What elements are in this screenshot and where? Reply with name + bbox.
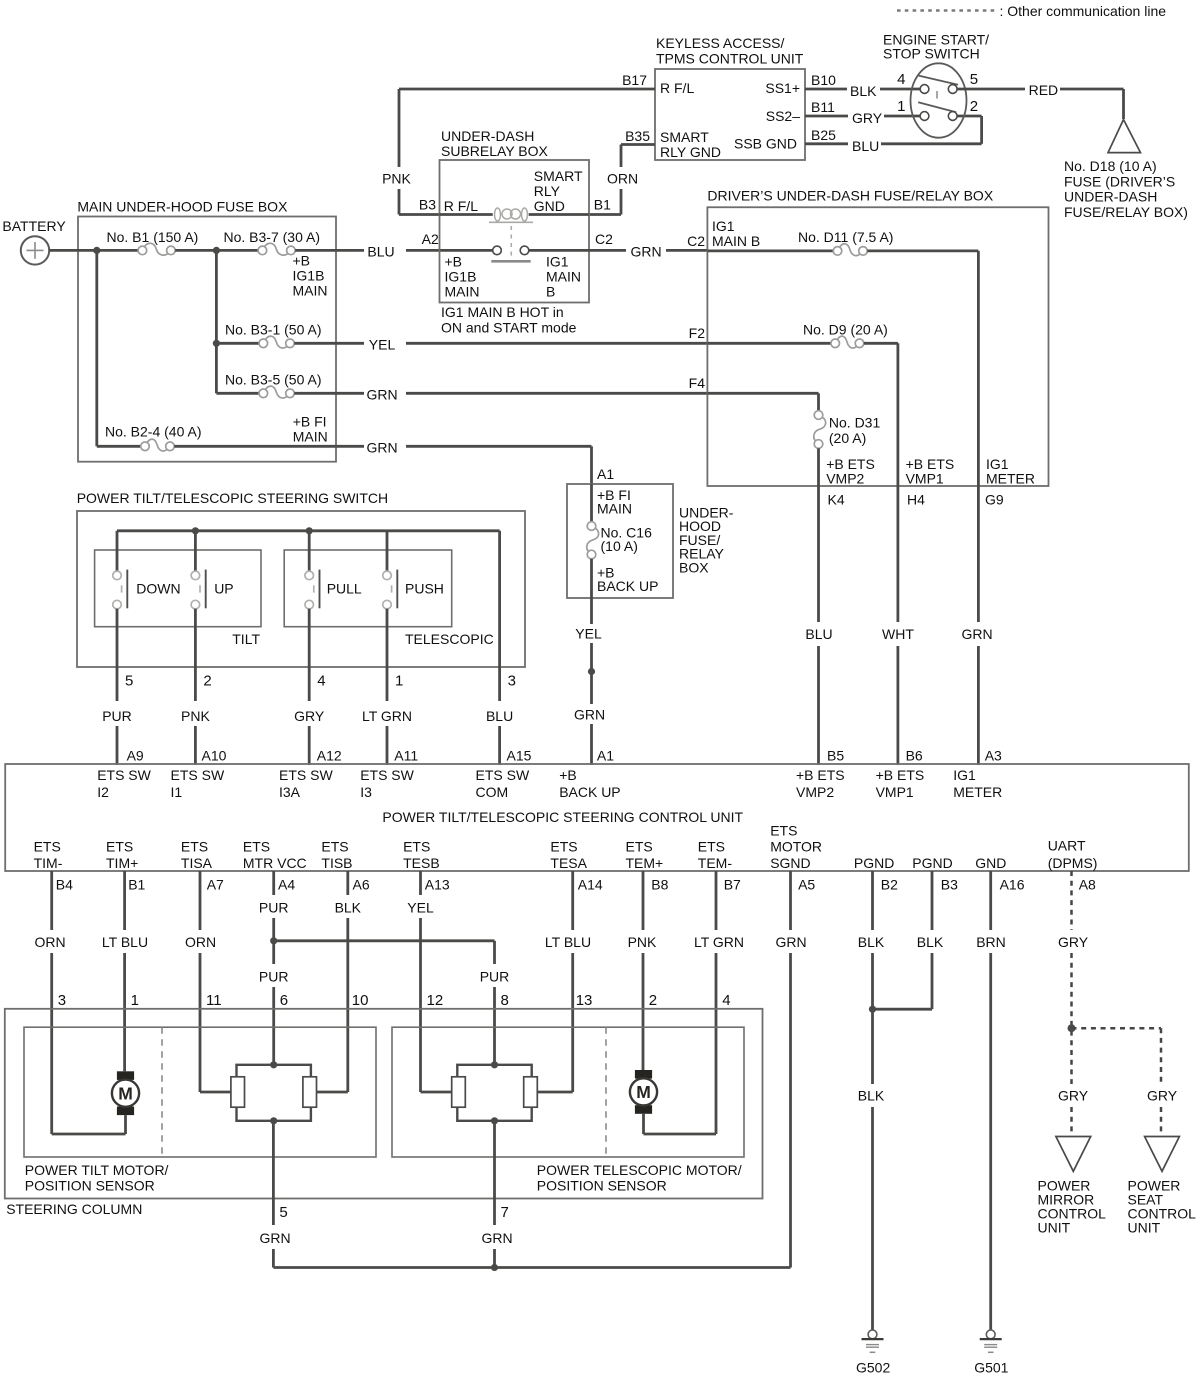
pin B6 xyxy=(906,748,923,764)
wire GRN B3-5 to driver box F4 xyxy=(294,387,707,403)
svg-text:B11: B11 xyxy=(811,99,835,115)
svg-text:GRN: GRN xyxy=(366,387,397,403)
pin B11 xyxy=(811,99,835,115)
svg-text:FUSE/RELAY BOX): FUSE/RELAY BOX) xyxy=(1064,204,1188,220)
svg-text:UNDER-DASH: UNDER-DASH xyxy=(1064,189,1157,205)
switch PULL xyxy=(305,531,362,609)
keyless access/TPMS control unit xyxy=(655,35,805,160)
svg-text:GRY: GRY xyxy=(294,708,325,724)
wire battery branch down to B2-4 xyxy=(97,250,141,446)
svg-text:ETS: ETS xyxy=(181,839,208,855)
svg-text:No. D31: No. D31 xyxy=(829,415,881,431)
svg-text:A14: A14 xyxy=(578,877,603,893)
svg-text:LT BLU: LT BLU xyxy=(545,934,591,950)
svg-text:IG1 MAIN B HOT in: IG1 MAIN B HOT in xyxy=(441,304,564,320)
svg-text:B7: B7 xyxy=(724,877,741,893)
svg-text:GRY: GRY xyxy=(1058,934,1089,950)
svg-text:TELESCOPIC: TELESCOPIC xyxy=(405,631,494,647)
svg-text:(20 A): (20 A) xyxy=(829,430,866,446)
svg-text:GRY: GRY xyxy=(1147,1088,1178,1104)
wire B3 branch down xyxy=(215,250,218,343)
svg-text:YEL: YEL xyxy=(369,337,396,353)
svg-text:1: 1 xyxy=(897,98,905,115)
pin A1 under-hood box xyxy=(597,466,614,482)
pin A2 xyxy=(422,231,439,247)
svg-text:I3A: I3A xyxy=(279,784,301,800)
legend: other communication line xyxy=(897,3,1166,19)
svg-text:MAIN: MAIN xyxy=(445,284,480,300)
svg-text:ETS: ETS xyxy=(321,839,348,855)
pin B1 xyxy=(594,197,611,213)
svg-text:No. B2-4 (40 A): No. B2-4 (40 A) xyxy=(105,424,202,440)
wire GRY dashed branch to power seat control unit xyxy=(1072,1028,1178,1136)
svg-text:GRY: GRY xyxy=(852,110,883,126)
svg-text:POWER TILT/TELESCOPIC STEERING: POWER TILT/TELESCOPIC STEERING SWITCH xyxy=(77,490,388,506)
svg-text:BLK: BLK xyxy=(917,934,944,950)
svg-text:IG1: IG1 xyxy=(546,254,569,270)
svg-text:A15: A15 xyxy=(507,748,532,764)
svg-text:ETS SW: ETS SW xyxy=(279,767,333,783)
wire LT BLU A14 to telescopic sensor pin13 xyxy=(537,871,593,1092)
position sensor telescopic xyxy=(452,1061,538,1124)
svg-text:GRN: GRN xyxy=(481,1230,512,1246)
fuse No. B1 (150 A) xyxy=(107,229,199,255)
svg-text:G9: G9 xyxy=(985,492,1004,508)
svg-text:MOTOR: MOTOR xyxy=(770,839,822,855)
svg-text:UART: UART xyxy=(1048,838,1086,854)
svg-text:C2: C2 xyxy=(687,233,705,249)
driver's under-dash fuse/relay box xyxy=(707,188,1048,486)
wire PNK B8 to telescopic motor pin2 xyxy=(628,871,658,1070)
svg-text:ETS: ETS xyxy=(34,839,61,855)
svg-text:ORN: ORN xyxy=(34,934,65,950)
pin A15 xyxy=(507,748,532,764)
svg-text:4: 4 xyxy=(897,71,905,88)
power tilt/telescopic steering control unit xyxy=(5,764,1189,871)
svg-text:BLK: BLK xyxy=(850,83,877,99)
wire PNK switch pin2 to A10 xyxy=(181,609,212,765)
svg-text:MTR VCC: MTR VCC xyxy=(243,855,307,871)
svg-text:A1: A1 xyxy=(597,748,614,764)
node GRN junction xyxy=(491,1264,498,1271)
pin A8 xyxy=(1079,877,1096,893)
pin C2 driver box xyxy=(687,233,705,249)
svg-text:A5: A5 xyxy=(798,877,815,893)
svg-text:A12: A12 xyxy=(317,748,342,764)
wire ORN B4 to steering column pin3 xyxy=(34,871,125,1134)
svg-text:2: 2 xyxy=(649,992,657,1009)
svg-text:TISB: TISB xyxy=(321,855,352,871)
svg-text:ETS SW: ETS SW xyxy=(171,767,225,783)
svg-text:BACK UP: BACK UP xyxy=(559,784,620,800)
svg-text:IG1: IG1 xyxy=(712,218,735,234)
pin B8 xyxy=(651,877,668,893)
svg-text:VMP1: VMP1 xyxy=(876,784,914,800)
main under-hood fuse box xyxy=(77,199,336,462)
svg-text:BLU: BLU xyxy=(486,708,513,724)
svg-text:M: M xyxy=(118,1083,133,1103)
pin A3 xyxy=(985,748,1002,764)
svg-text:GRN: GRN xyxy=(775,934,806,950)
svg-text:K4: K4 xyxy=(828,492,845,508)
svg-text:SGND: SGND xyxy=(770,855,810,871)
svg-text:A1: A1 xyxy=(597,466,614,482)
svg-text:MAIN: MAIN xyxy=(597,501,632,517)
svg-text:BRN: BRN xyxy=(976,934,1006,950)
svg-text:ETS: ETS xyxy=(626,839,653,855)
pin A10 xyxy=(202,748,227,764)
svg-text:POWER TILT MOTOR/: POWER TILT MOTOR/ xyxy=(25,1162,169,1178)
svg-text:13: 13 xyxy=(576,992,593,1009)
steering column box xyxy=(5,1009,763,1217)
wire GRY B11 to switch pin1 xyxy=(805,110,920,126)
svg-text:+B ETS: +B ETS xyxy=(906,456,955,472)
wire YEL/GRN under-hood box to A1 control unit xyxy=(574,598,605,765)
fuse No. B3-7 (30 A) xyxy=(224,229,328,299)
svg-text:LT GRN: LT GRN xyxy=(694,934,744,950)
svg-text:IG1B: IG1B xyxy=(445,269,477,285)
svg-text:PUR: PUR xyxy=(102,708,132,724)
relay contact xyxy=(491,246,530,261)
svg-text:MAIN UNDER-HOOD FUSE BOX: MAIN UNDER-HOOD FUSE BOX xyxy=(77,199,288,215)
svg-text:A11: A11 xyxy=(394,748,418,764)
pin B25 xyxy=(811,127,836,143)
svg-text:PNK: PNK xyxy=(382,171,411,187)
under-hood fuse/relay box xyxy=(567,484,734,598)
svg-text:+B ETS: +B ETS xyxy=(876,767,925,783)
wire relay to C2 GRN to driver box xyxy=(529,244,708,260)
wire LT GRN switch pin1 to A11 xyxy=(362,609,412,765)
svg-text:TILT: TILT xyxy=(232,631,260,647)
svg-text:ETS: ETS xyxy=(106,839,133,855)
svg-text:TEM-: TEM- xyxy=(698,855,733,871)
svg-text:VMP1: VMP1 xyxy=(906,471,944,487)
node YEL/GRN splice xyxy=(588,668,595,675)
svg-text:R F/L: R F/L xyxy=(444,198,478,214)
pin B1 xyxy=(128,877,145,893)
svg-text:FUSE (DRIVER’S: FUSE (DRIVER’S xyxy=(1064,173,1175,189)
svg-text:10: 10 xyxy=(352,992,369,1009)
pin B5 xyxy=(827,748,844,764)
svg-text:YEL: YEL xyxy=(407,900,434,916)
svg-text:UP: UP xyxy=(214,581,233,597)
svg-text:No. B1 (150 A): No. B1 (150 A) xyxy=(107,229,199,245)
wire GRY A8 dashed to power mirror control unit xyxy=(1058,871,1089,1137)
svg-text:TPMS CONTROL UNIT: TPMS CONTROL UNIT xyxy=(656,51,804,67)
wire GRN A5 to sensors ground xyxy=(273,871,806,1268)
node BLK junction xyxy=(869,1006,876,1013)
svg-text:RED: RED xyxy=(1029,82,1059,98)
power tilt/telescopic steering switch box xyxy=(77,490,525,667)
pin A11 xyxy=(394,748,418,764)
svg-text:A7: A7 xyxy=(207,877,224,893)
svg-text:8: 8 xyxy=(501,992,509,1009)
pin B35 xyxy=(625,128,650,144)
wire GRN sensor tilt pin5 xyxy=(259,1121,290,1268)
node battery junction xyxy=(93,247,100,254)
svg-text:BLU: BLU xyxy=(852,138,879,154)
wire BLK B10 to switch pin4 xyxy=(805,83,920,99)
svg-text:PULL: PULL xyxy=(327,581,362,597)
svg-text:A9: A9 xyxy=(127,748,144,764)
svg-text:MAIN B: MAIN B xyxy=(712,233,760,249)
svg-text:B4: B4 xyxy=(56,877,73,893)
connector to power mirror control unit xyxy=(1038,1137,1107,1236)
svg-text:H4: H4 xyxy=(907,492,925,508)
wire RED switch pin5 to fuse D18 xyxy=(957,82,1123,119)
svg-text:GRN: GRN xyxy=(259,1230,290,1246)
svg-text:No. B3-5 (50 A): No. B3-5 (50 A) xyxy=(225,372,322,388)
svg-text:PUR: PUR xyxy=(259,900,289,916)
fuse No. D11 (7.5 A) xyxy=(707,229,978,486)
svg-text:GRN: GRN xyxy=(961,626,992,642)
wire fuse B1 to fuse B3-7 xyxy=(175,249,258,252)
pin A16 xyxy=(1000,877,1025,893)
node PUR junction xyxy=(270,937,277,944)
wire LT BLU B1 to tilt motor pin1 xyxy=(102,871,148,1071)
svg-text:M: M xyxy=(636,1082,651,1102)
wire BRN A16 to G501 xyxy=(976,871,1006,1330)
svg-text:ETS SW: ETS SW xyxy=(360,767,414,783)
wire BLU switch pin3 to A15 xyxy=(486,531,516,765)
svg-text:B17: B17 xyxy=(622,72,647,88)
svg-text:B35: B35 xyxy=(625,128,650,144)
svg-text:METER: METER xyxy=(953,784,1002,800)
svg-text:4: 4 xyxy=(317,673,325,690)
wire BLU K4 to B5 xyxy=(805,486,832,765)
wire YEL B3-1 to driver box F2 xyxy=(294,337,707,353)
power telescopic motor/position sensor box xyxy=(392,1027,744,1193)
svg-text:B3: B3 xyxy=(419,197,436,213)
svg-text:B: B xyxy=(546,284,555,300)
svg-text:No. D11 (7.5 A): No. D11 (7.5 A) xyxy=(798,229,893,245)
wire GRY switch pin4 to A12 xyxy=(294,609,325,765)
svg-text:PNK: PNK xyxy=(628,934,657,950)
svg-text:G502: G502 xyxy=(856,1360,890,1376)
svg-text:A8: A8 xyxy=(1079,877,1096,893)
pin B3 xyxy=(419,197,436,213)
svg-text:MAIN: MAIN xyxy=(293,428,328,444)
svg-text:G501: G501 xyxy=(974,1360,1008,1376)
svg-text:POWER TILT/TELESCOPIC STEERING: POWER TILT/TELESCOPIC STEERING CONTROL U… xyxy=(382,809,743,825)
pin B3 xyxy=(941,877,958,893)
svg-text:(10 A): (10 A) xyxy=(601,538,638,554)
svg-text:STEERING COLUMN: STEERING COLUMN xyxy=(6,1201,142,1217)
pin A14 xyxy=(578,877,603,893)
svg-text:ORN: ORN xyxy=(607,171,638,187)
pin B17 xyxy=(622,72,647,88)
svg-text:TESA: TESA xyxy=(550,855,587,871)
svg-text:RLY GND: RLY GND xyxy=(660,144,721,160)
svg-text:BLU: BLU xyxy=(805,626,832,642)
fuse No. D31 (20 A) xyxy=(707,393,880,486)
svg-text:5: 5 xyxy=(125,673,133,690)
svg-text:TISA: TISA xyxy=(181,855,213,871)
wire PNK B17 to subrelay xyxy=(382,89,655,215)
wire YEL A13 to telescopic sensor pin12 xyxy=(407,871,451,1092)
svg-text:DOWN: DOWN xyxy=(136,581,180,597)
wire BLK B2 to G502 xyxy=(858,871,885,1330)
svg-text:ETS: ETS xyxy=(770,823,797,839)
svg-text:A2: A2 xyxy=(422,231,439,247)
svg-text:4: 4 xyxy=(722,992,730,1009)
svg-text:IG1: IG1 xyxy=(953,767,976,783)
svg-text:+B FI: +B FI xyxy=(293,414,327,430)
svg-text:SMART: SMART xyxy=(660,129,709,145)
motor M telescopic xyxy=(630,1070,657,1134)
pin A9 xyxy=(127,748,144,764)
pin B2 xyxy=(881,877,898,893)
svg-text:I2: I2 xyxy=(97,784,109,800)
inner box TILT xyxy=(95,550,261,647)
position sensor tilt xyxy=(231,1061,317,1124)
svg-text:GND: GND xyxy=(975,855,1006,871)
svg-text:ETS SW: ETS SW xyxy=(97,767,151,783)
svg-text:A3: A3 xyxy=(985,748,1002,764)
svg-text:B1: B1 xyxy=(128,877,145,893)
svg-text:I3: I3 xyxy=(360,784,372,800)
svg-text:VMP2: VMP2 xyxy=(796,784,834,800)
inner box TELESCOPIC xyxy=(284,550,494,647)
svg-text:SUBRELAY BOX: SUBRELAY BOX xyxy=(441,143,549,159)
svg-text:ORN: ORN xyxy=(185,934,216,950)
pin A4 xyxy=(278,877,295,893)
svg-text:TESB: TESB xyxy=(403,855,440,871)
pin F4 xyxy=(689,375,706,391)
svg-text:UNIT: UNIT xyxy=(1038,1220,1071,1236)
svg-text:5: 5 xyxy=(279,1204,287,1221)
svg-text:YEL: YEL xyxy=(575,625,602,641)
svg-text:BLU: BLU xyxy=(367,244,394,260)
svg-text:12: 12 xyxy=(427,992,444,1009)
svg-text:KEYLESS ACCESS/: KEYLESS ACCESS/ xyxy=(656,35,785,51)
engine start/stop switch xyxy=(883,32,989,138)
svg-text:A10: A10 xyxy=(202,748,227,764)
node bus junction PULL xyxy=(306,527,313,534)
svg-text:B8: B8 xyxy=(651,877,668,893)
wire ORN A7 to tilt sensor pin11 xyxy=(185,871,231,1092)
svg-text:R F/L: R F/L xyxy=(660,80,694,96)
ground G502 xyxy=(856,1330,890,1376)
battery xyxy=(2,218,66,265)
svg-text:LT BLU: LT BLU xyxy=(102,934,148,950)
svg-text:BOX: BOX xyxy=(679,559,709,575)
svg-text:POWER TELESCOPIC MOTOR/: POWER TELESCOPIC MOTOR/ xyxy=(537,1162,742,1178)
svg-text:STOP SWITCH: STOP SWITCH xyxy=(883,45,980,61)
switch PUSH xyxy=(383,531,444,609)
svg-text:BLK: BLK xyxy=(335,900,362,916)
svg-text:1: 1 xyxy=(131,992,139,1009)
svg-text:POSITION SENSOR: POSITION SENSOR xyxy=(25,1178,155,1194)
pin A7 xyxy=(207,877,224,893)
wire PUR branch to telescopic sensor pin8 xyxy=(274,941,510,1065)
svg-text:BLK: BLK xyxy=(858,934,885,950)
under-dash subrelay box xyxy=(440,128,590,336)
svg-text:VMP2: VMP2 xyxy=(826,471,864,487)
svg-text:ON and START mode: ON and START mode xyxy=(441,320,577,336)
svg-text:No. D9 (20 A): No. D9 (20 A) xyxy=(803,322,888,338)
fuse No. B2-4 (40 A) xyxy=(105,414,328,452)
svg-text:SSB GND: SSB GND xyxy=(734,136,797,152)
svg-text:POSITION SENSOR: POSITION SENSOR xyxy=(537,1178,667,1194)
pin A1 xyxy=(597,748,614,764)
wire switch bus xyxy=(117,529,500,532)
pin A6 xyxy=(353,877,370,893)
wire R F/L row xyxy=(440,213,590,216)
wire PUR switch pin5 to A9 xyxy=(102,609,133,765)
svg-text:B3: B3 xyxy=(941,877,958,893)
pin H4 xyxy=(907,492,925,508)
wire GRN G9 to A3 xyxy=(961,486,992,765)
wire BLU B3-7 to subrelay A2 xyxy=(295,244,493,260)
svg-text:TIM+: TIM+ xyxy=(106,855,138,871)
node B3-1 junction xyxy=(213,340,220,347)
relay coil smart rly xyxy=(489,208,533,257)
svg-text:COM: COM xyxy=(476,784,509,800)
svg-text:ETS: ETS xyxy=(403,839,430,855)
svg-text:WHT: WHT xyxy=(882,626,914,642)
control unit top labels xyxy=(97,767,1002,800)
svg-text:No. D18 (10 A): No. D18 (10 A) xyxy=(1064,158,1157,174)
svg-text:GRN: GRN xyxy=(574,707,605,723)
svg-text:3: 3 xyxy=(58,992,66,1009)
wire GRN sensor telescopic pin7 xyxy=(481,1121,512,1268)
svg-text:GRN: GRN xyxy=(630,244,661,260)
pin K4 xyxy=(828,492,845,508)
svg-text:IG1: IG1 xyxy=(986,456,1009,472)
control unit bottom labels xyxy=(34,823,1098,872)
wire PUR A4 to tilt sensor pin6 xyxy=(259,871,289,1065)
ground G501 xyxy=(974,1330,1008,1376)
svg-text:ETS SW: ETS SW xyxy=(476,767,530,783)
svg-text:A4: A4 xyxy=(278,877,295,893)
svg-text:RLY: RLY xyxy=(534,183,561,199)
wire LT GRN B7 to telescopic motor pin4 xyxy=(644,871,745,1134)
svg-text:SS1+: SS1+ xyxy=(765,80,800,96)
fuse No. C16 (10 A) xyxy=(587,484,599,598)
svg-text:PUR: PUR xyxy=(259,969,289,985)
svg-text:+B ETS: +B ETS xyxy=(826,456,875,472)
svg-text:ETS: ETS xyxy=(550,839,577,855)
pin A12 xyxy=(317,748,342,764)
svg-text:UNDER-DASH: UNDER-DASH xyxy=(441,128,534,144)
svg-text:B25: B25 xyxy=(811,127,836,143)
svg-text:BACK UP: BACK UP xyxy=(597,578,658,594)
motor M tilt xyxy=(112,1071,139,1134)
svg-text:PGND: PGND xyxy=(854,855,894,871)
svg-text:+B: +B xyxy=(293,253,311,269)
wire BLU B25 to switch pin2 xyxy=(805,116,982,154)
pin B7 xyxy=(724,877,741,893)
node GRY dashed junction xyxy=(1068,1024,1076,1032)
connector to power seat control unit xyxy=(1128,1137,1197,1236)
fuse No. D18 (10 A) xyxy=(1064,120,1188,220)
svg-text:BLK: BLK xyxy=(858,1088,885,1104)
svg-text:B5: B5 xyxy=(827,748,844,764)
svg-text:F4: F4 xyxy=(689,375,706,391)
fuse No. B3-5 (50 A) xyxy=(225,372,322,399)
wire BLK A6 to tilt sensor pin10 xyxy=(317,871,369,1092)
svg-text:No. B3-7 (30 A): No. B3-7 (30 A) xyxy=(224,229,321,245)
svg-text:ETS: ETS xyxy=(698,839,725,855)
wire ORN subrelay B1 to B35 xyxy=(589,145,655,215)
power tilt motor/position sensor box xyxy=(24,1027,376,1193)
svg-text:PGND: PGND xyxy=(912,855,952,871)
svg-text:PUSH: PUSH xyxy=(405,581,444,597)
svg-text:ETS: ETS xyxy=(243,839,270,855)
pin C2 xyxy=(595,231,613,247)
svg-text:B6: B6 xyxy=(906,748,923,764)
